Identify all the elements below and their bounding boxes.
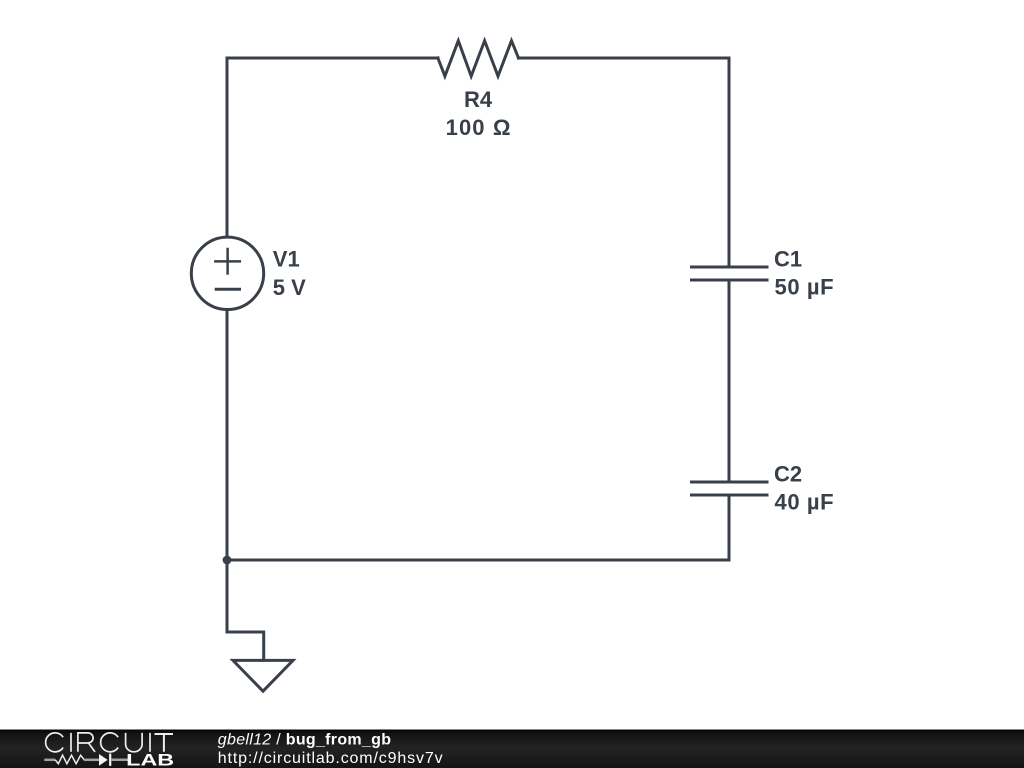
- svg-text:gbell12 / bug_from_gb: gbell12 / bug_from_gb: [218, 732, 391, 749]
- wire bottom: [227, 559, 729, 562]
- logo letter R: [78, 733, 95, 752]
- svg-text:5 V: 5 V: [273, 275, 306, 300]
- logo diode triangle: [99, 754, 108, 766]
- logo letter C: [46, 733, 63, 752]
- wire top-left down to V1: [226, 58, 229, 237]
- footer credit line: [218, 732, 391, 749]
- node junction dot: [223, 556, 232, 565]
- logo letter I: [70, 733, 72, 752]
- V1 minus sign: [216, 288, 239, 291]
- capacitor C2: [692, 482, 768, 495]
- logo letter U: [126, 733, 143, 752]
- wire C2 to bottom-right corner: [728, 495, 731, 560]
- logo letter T: [155, 734, 174, 752]
- wire resistor to top-right corner: [519, 57, 730, 60]
- wire node to ground: [227, 560, 264, 660]
- logo resistor zigzag: [55, 755, 84, 764]
- logo diode cathode bar: [109, 754, 111, 766]
- logo CIRCUIT letters: [46, 733, 173, 752]
- svg-text:http://circuitlab.com/c9hsv7v: http://circuitlab.com/c9hsv7v: [218, 750, 444, 767]
- logo lead wire middle: [84, 759, 99, 762]
- svg-text:100 Ω: 100 Ω: [446, 115, 512, 140]
- svg-text:R4: R4: [464, 87, 493, 112]
- logo lead wire right: [111, 759, 128, 762]
- svg-text:50 µF: 50 µF: [775, 275, 835, 300]
- wire right side down to C1: [728, 58, 731, 267]
- logo LAB text: [126, 751, 174, 768]
- ground symbol triangle: [233, 660, 293, 691]
- footer bar: [0, 730, 1024, 768]
- logo letter I: [149, 733, 151, 752]
- svg-text:C2: C2: [774, 462, 802, 487]
- svg-text:LAB: LAB: [126, 751, 174, 768]
- footer url line: [218, 750, 444, 767]
- wire C1 to C2: [728, 280, 731, 482]
- capacitor C1: [692, 267, 768, 280]
- svg-text:V1: V1: [273, 247, 300, 272]
- wire top-left to resistor: [227, 57, 438, 60]
- voltage source V1 circle: [191, 237, 263, 309]
- resistor R4: [438, 41, 519, 76]
- wire V1 to bottom node: [226, 310, 229, 560]
- logo letter C: [101, 733, 118, 752]
- V1 plus sign: [215, 249, 239, 273]
- logo lead wire left: [44, 759, 55, 762]
- svg-text:C1: C1: [774, 247, 802, 272]
- svg-text:40 µF: 40 µF: [775, 490, 835, 515]
